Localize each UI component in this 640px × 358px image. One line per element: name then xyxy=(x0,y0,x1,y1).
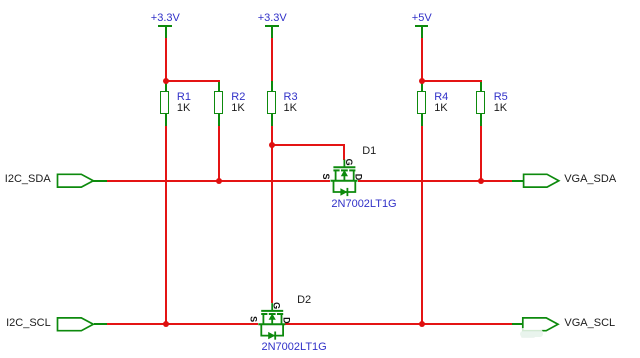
svg-text:G: G xyxy=(344,159,354,166)
svg-text:D: D xyxy=(354,174,364,181)
svg-text:S: S xyxy=(249,316,259,322)
svg-text:G: G xyxy=(272,302,282,309)
svg-text:S: S xyxy=(321,173,331,179)
svg-text:D: D xyxy=(282,317,292,324)
